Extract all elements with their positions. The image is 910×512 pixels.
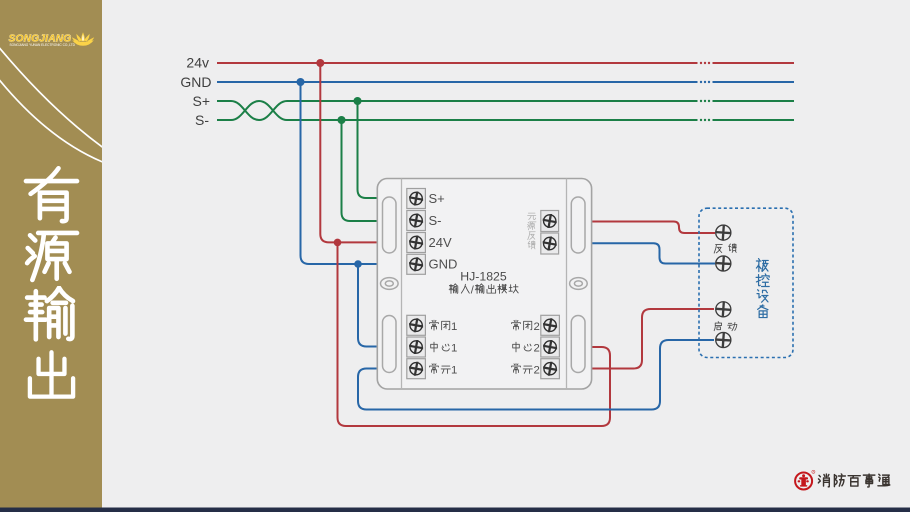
device terminal start plus bbox=[716, 302, 731, 317]
label changbi2 bbox=[512, 320, 532, 330]
footer brand icon (fire hydrant in circle) bbox=[795, 470, 815, 489]
wire S- drop to module S- terminal bbox=[342, 120, 378, 221]
sidebar vertical title: YOU (active) bbox=[26, 168, 77, 221]
terminal NO1 (changkai1) bbox=[407, 359, 426, 379]
label fankui (feedback) bbox=[714, 244, 736, 253]
wire 24v drop to module 24V terminal bbox=[320, 63, 377, 242]
module slot lower-right bbox=[571, 316, 585, 373]
module mounting ear left bbox=[381, 278, 399, 290]
sidebar panel bbox=[0, 0, 105, 508]
wire GND drop to module GND terminal bbox=[301, 82, 378, 264]
svg-text:24v: 24v bbox=[186, 55, 209, 71]
junction dot 24v bus bbox=[316, 59, 324, 67]
wire NO2 (changkai2) to device start plus bbox=[592, 309, 714, 369]
label zhongxin2 bbox=[513, 342, 532, 352]
terminal COM2 (zhongxin2) bbox=[541, 337, 560, 357]
device terminal start minus bbox=[716, 332, 731, 347]
svg-text:1: 1 bbox=[451, 343, 457, 355]
junction dot S+ bus bbox=[354, 97, 362, 105]
terminal S+ bbox=[407, 189, 445, 209]
module mounting ear right bbox=[570, 278, 588, 290]
svg-text:SONGJIANG YUNAN ELECTRONIC CO.: SONGJIANG YUNAN ELECTRONIC CO.,LTD bbox=[10, 43, 76, 47]
controlled device dashed box bbox=[699, 208, 793, 357]
junction dot GND bus bbox=[297, 78, 305, 86]
terminal GND bbox=[407, 254, 458, 274]
terminal NO2 (changkai2) bbox=[541, 359, 560, 379]
label zhongxin1 bbox=[431, 342, 450, 352]
label qidong (start) bbox=[714, 321, 737, 330]
wire S+ drop to module S+ terminal bbox=[358, 101, 378, 198]
wire GND branch down to COM1 (zhongxin1) bbox=[358, 264, 377, 347]
wire 24v bus bbox=[217, 62, 794, 64]
module inner panel lines bbox=[402, 179, 567, 390]
module slot lower-left bbox=[383, 316, 397, 373]
wire feedback minus (module to device) bbox=[592, 243, 715, 263]
24v bus continuation dots bbox=[700, 62, 710, 64]
GND bus continuation dots bbox=[700, 81, 710, 83]
svg-text:S+: S+ bbox=[429, 191, 445, 206]
terminal NC1 (changbi1) bbox=[407, 315, 426, 335]
sidebar title: SHU (output) bbox=[26, 288, 73, 340]
S+ bus continuation dots bbox=[700, 100, 710, 102]
svg-text:GND: GND bbox=[180, 74, 211, 90]
terminal S- bbox=[407, 211, 442, 231]
label changkai1 bbox=[430, 363, 451, 373]
svg-text:S-: S- bbox=[429, 213, 442, 228]
module subtitle input/output module glyphs bbox=[449, 284, 469, 294]
junction dot GND branch bbox=[354, 260, 362, 268]
junction dot S- bus bbox=[338, 116, 346, 124]
svg-text:2: 2 bbox=[534, 343, 540, 355]
svg-text:S-: S- bbox=[195, 112, 209, 128]
lotus logo icon bbox=[72, 32, 94, 46]
junction dot 24v branch bbox=[334, 239, 342, 247]
decorative arcs bbox=[0, 45, 105, 149]
S- bus continuation dots bbox=[700, 119, 710, 121]
wire S+ bus with twisted pair bbox=[217, 101, 794, 120]
bottom navy bar bbox=[0, 508, 910, 512]
terminal 24V bbox=[407, 233, 452, 253]
svg-text:GND: GND bbox=[429, 257, 458, 272]
module U1 HJ-1825 body bbox=[377, 179, 591, 390]
svg-text:1: 1 bbox=[451, 321, 457, 333]
footer brand name: xiao-fang-bai-shi-tong glyphs bbox=[818, 474, 889, 487]
label changkai2 bbox=[512, 363, 533, 373]
svg-text:2: 2 bbox=[534, 364, 540, 376]
svg-text:HJ-1825: HJ-1825 bbox=[460, 270, 507, 284]
terminal COM1 (zhongxin1) bbox=[407, 337, 426, 357]
label wuyuan-fankui (passive feedback) vertical bbox=[528, 213, 536, 249]
wire feedback plus (module to device) bbox=[592, 222, 715, 234]
svg-text:2: 2 bbox=[534, 321, 540, 333]
sidebar title: YUAN (source) bbox=[27, 233, 77, 280]
terminal feedback A (right top) bbox=[541, 211, 559, 232]
module slot upper-left bbox=[383, 197, 397, 253]
module slot upper-right bbox=[571, 197, 585, 253]
wire GND bus bbox=[217, 81, 794, 83]
svg-text:24V: 24V bbox=[429, 235, 452, 250]
device terminal feedback minus bbox=[716, 256, 731, 271]
wire NO1 (changkai1) to device start minus bbox=[358, 340, 714, 410]
terminal feedback B (right top) bbox=[541, 233, 559, 254]
wire 24v branch down to COM2 (zhongxin2) via bottom bbox=[338, 242, 611, 426]
svg-text:1: 1 bbox=[451, 364, 457, 376]
wire S- bus with twisted pair bbox=[217, 101, 794, 120]
terminal NC2 (changbi2) bbox=[541, 315, 560, 335]
label changbi1 bbox=[430, 320, 450, 330]
svg-text:S+: S+ bbox=[192, 93, 210, 109]
device terminal feedback plus bbox=[716, 225, 731, 240]
bus labels bbox=[180, 55, 211, 128]
sidebar title: CHU (out) bbox=[30, 352, 73, 396]
label beikong-shebei (controlled device) vertical bbox=[756, 259, 769, 318]
